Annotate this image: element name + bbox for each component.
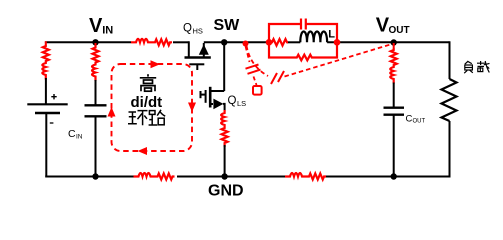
node GND junction dot (221, 173, 227, 179)
inductor model box bottom branch (269, 42, 337, 60)
svg-text:LS: LS (237, 99, 246, 108)
parasitic LR1 top rail (131, 39, 172, 46)
svg-text:OUT: OUT (389, 25, 410, 36)
wire top rail V_OUT segment (327, 41, 449, 43)
node V_OUT junction dot (391, 39, 397, 45)
transistor Q_LS arrow (213, 99, 223, 110)
label fu character (load) (464, 61, 473, 73)
parasitic RL C_IN column (92, 46, 99, 81)
capacitor parasitic cap1 (246, 65, 261, 74)
wire C_OUT bottom (393, 115, 395, 177)
transistor Q_HS (185, 41, 211, 70)
inductor model box top branch with capacitor (269, 24, 337, 42)
wire C_OUT top (393, 83, 395, 108)
wire dashed cap2 to V_OUT (285, 44, 393, 77)
wire C_OUT stub red (393, 43, 395, 49)
resistor load (442, 79, 457, 121)
svg-text:SW: SW (214, 17, 241, 34)
wire dashed cap1 to pad (254, 77, 257, 86)
svg-text:Q: Q (228, 95, 237, 107)
wire C_IN top (95, 80, 97, 105)
wire coil lead (287, 41, 300, 43)
wire top rail V_IN segment (45, 41, 131, 43)
inductor L coil (300, 32, 327, 43)
wire bottom rail middle (177, 176, 285, 178)
svg-text:C: C (68, 128, 76, 140)
wire load column top (449, 41, 451, 79)
capacitor C_IN (85, 105, 107, 116)
svg-text:IN: IN (102, 24, 113, 36)
node SW junction dot (221, 39, 227, 45)
transistor Q_HS arrow (199, 44, 209, 55)
label gao character (140, 74, 156, 91)
svg-text:IN: IN (76, 134, 83, 141)
svg-text:OUT: OUT (413, 119, 426, 125)
label zai character (load) (477, 61, 490, 73)
parasitic LR3 bottom rail (285, 173, 326, 180)
pad small red square (253, 86, 262, 95)
svg-text:V: V (89, 15, 103, 37)
wire dashed SW to cap2 (247, 46, 269, 77)
capacitor C_OUT (384, 108, 405, 115)
wire top rail to Q_HS (173, 41, 189, 43)
node box right red dot (334, 39, 341, 46)
svg-text:GND: GND (208, 183, 244, 200)
node box left red dot (266, 39, 273, 46)
wire C_IN bottom (95, 116, 97, 176)
wire Q_LS to GND (224, 145, 226, 177)
wire battery to bottom rail (45, 113, 47, 177)
loop arrow right (188, 103, 196, 113)
wire bottom rail right (326, 176, 450, 178)
battery V_IN source plate + (27, 103, 67, 105)
wire top rail SW segment (204, 41, 270, 43)
wire load column bottom (449, 121, 451, 178)
loop dashed high di/dt rectangle (112, 64, 193, 151)
battery + sign (51, 94, 56, 99)
wire left column top (45, 41, 47, 44)
svg-text:di/dt: di/dt (131, 94, 163, 111)
label huan character (128, 111, 148, 126)
battery plate - (35, 112, 60, 115)
node C_IN bottom junction dot (92, 173, 98, 179)
svg-text:Q: Q (183, 23, 192, 35)
wire dashed SW to cap1 (246, 46, 250, 62)
capacitor parasitic C of L (301, 19, 306, 30)
label lu character (149, 110, 166, 125)
node V_IN junction dot (92, 39, 98, 45)
resistor DCR of L (270, 39, 288, 45)
battery - sign (50, 122, 54, 124)
node parasitic attach red dot (243, 41, 249, 47)
wire left column to battery (45, 78, 47, 104)
wire C_IN stub red (95, 43, 97, 47)
wire SW to Q_LS drain (223, 42, 225, 91)
transistor Q_HS arrow stem (203, 55, 205, 58)
wire Q_LS source (223, 104, 225, 111)
wire bottom rail left (45, 176, 133, 178)
node C_OUT bottom junction dot (391, 173, 397, 179)
parasitic RL C_OUT column (390, 49, 397, 84)
capacitor parasitic cap2 (271, 71, 284, 84)
transistor Q_LS (201, 87, 225, 108)
parasitic RL left column (42, 45, 49, 80)
svg-text:C: C (406, 114, 413, 125)
loop arrow left (108, 107, 116, 117)
loop arrow top (151, 60, 161, 68)
parasitic LR Q_LS source (221, 110, 228, 147)
parasitic LR2 bottom rail (134, 173, 175, 180)
svg-text:L: L (328, 28, 335, 40)
svg-text:HS: HS (193, 27, 203, 36)
loop arrow bottom (138, 147, 148, 155)
